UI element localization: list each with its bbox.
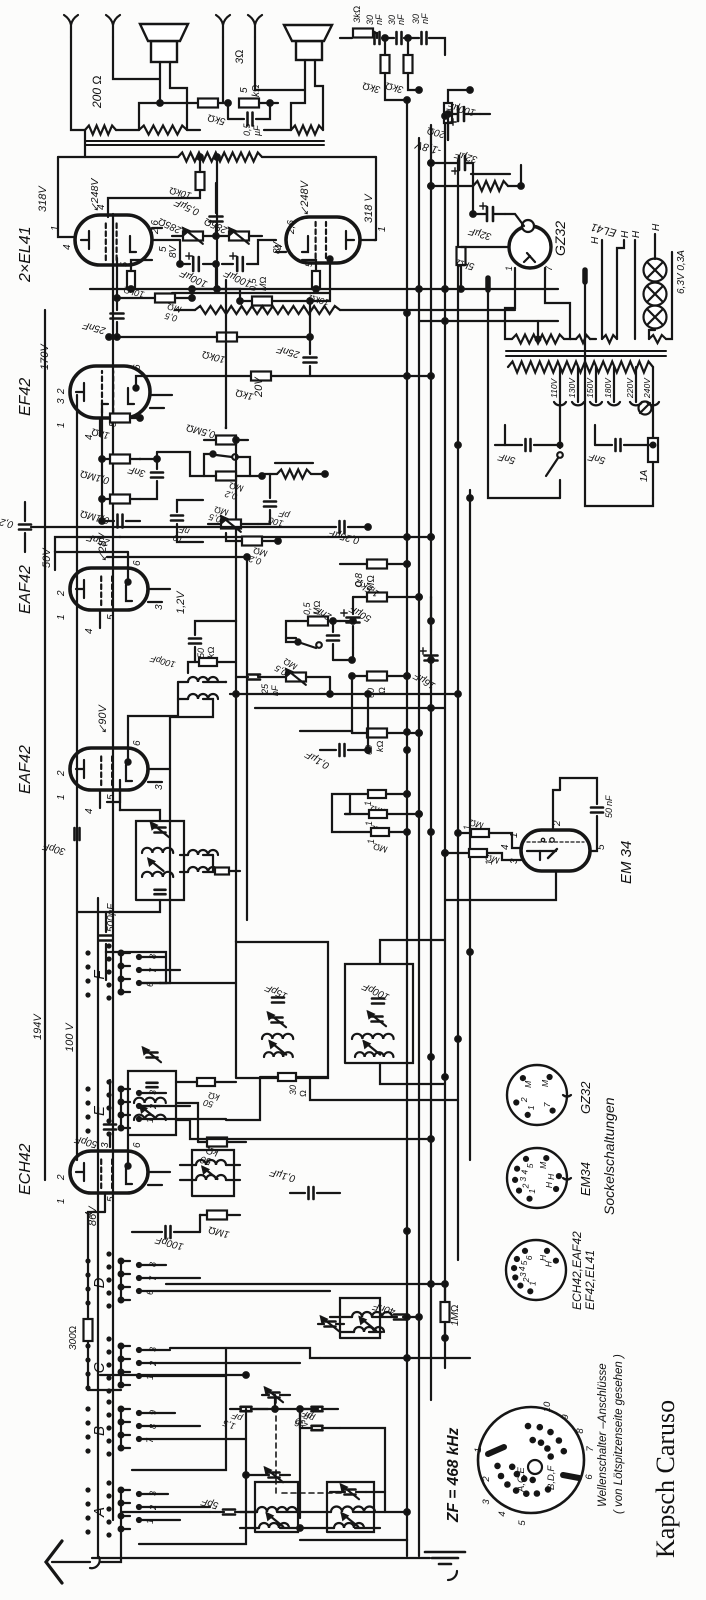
- svg-text:25nF: 25nF: [81, 319, 108, 336]
- capacitor 2nF det: [312, 603, 339, 660]
- svg-text:EL41: EL41: [590, 220, 618, 238]
- capacitor 0,25uF b: [327, 521, 371, 546]
- svg-text:EAF42: EAF42: [17, 565, 34, 614]
- wire EF42 pins: [100, 395, 172, 436]
- svg-text:A,C,E: A,C,E: [516, 1467, 527, 1493]
- elco 100uF 2: [222, 253, 253, 289]
- output cathode wires: [172, 183, 276, 289]
- ground: [92, 1552, 465, 1564]
- corner wires: [373, 33, 445, 103]
- capacitor 30pF fe: [294, 1408, 340, 1430]
- text Kapsch Caruso: [651, 1400, 680, 1558]
- capacitor 25nF g2: [275, 256, 333, 376]
- wire heater return: [666, 252, 672, 339]
- text 20V: [253, 376, 265, 398]
- capacitor 100pF if: [360, 980, 391, 1004]
- svg-text:170V: 170V: [39, 343, 51, 370]
- wire box1 feeds: [226, 1078, 458, 1120]
- svg-text:ZF = 468 kHz: ZF = 468 kHz: [445, 1427, 462, 1523]
- wire psu connect: [419, 320, 558, 322]
- resistor 3k a: [361, 55, 389, 95]
- socket GZ32: [507, 1065, 593, 1125]
- svg-text:1: 1: [504, 266, 514, 271]
- svg-text:7: 7: [148, 967, 158, 973]
- svg-text:2: 2: [56, 1174, 67, 1181]
- capacitor 0,1uF af: [303, 744, 371, 771]
- svg-text:7: 7: [148, 1275, 158, 1281]
- antenna coil 1: [257, 1507, 297, 1528]
- svg-text:3kΩ: 3kΩ: [361, 79, 381, 94]
- speaker 1 wires: [71, 37, 187, 130]
- svg-text:10: 10: [542, 1401, 553, 1412]
- terminal fork 2: [106, 15, 120, 37]
- tap terminals: [554, 402, 659, 415]
- svg-text:2,6: 2,6: [286, 220, 297, 235]
- switch section A: [87, 1482, 211, 1537]
- svg-text:A: A: [91, 1507, 108, 1518]
- svg-text:0,5: 0,5: [302, 601, 312, 615]
- capacitor 500pF: [77, 903, 117, 980]
- gang link h: [275, 1395, 277, 1493]
- svg-text:220V: 220V: [625, 377, 635, 399]
- wire coil bottoms: [300, 1539, 407, 1541]
- resistor 60k: [352, 729, 422, 756]
- capacitor 25nF g1: [81, 258, 123, 340]
- svg-text:8: 8: [148, 954, 158, 959]
- svg-text:2: 2: [56, 388, 67, 395]
- svg-text:3kΩ: 3kΩ: [384, 79, 404, 94]
- tube EF42 V4: [17, 364, 150, 440]
- IFT2 caps: [151, 823, 169, 894]
- wire em34 line: [445, 871, 556, 900]
- svg-text:3kΩ: 3kΩ: [352, 6, 363, 23]
- svg-text:↙90V: ↙90V: [97, 704, 109, 734]
- resistor 300 ohm: [68, 1212, 121, 1390]
- capacitor 100pF d: [132, 1226, 200, 1252]
- phono jack: [448, 1571, 457, 1580]
- elco 50uF: [341, 597, 360, 648]
- capacitor 40nF: [371, 1300, 422, 1320]
- wire top HT rail y=113: [112, 214, 114, 1520]
- svg-text:-1,8V: -1,8V: [413, 138, 443, 157]
- resistor 0,5M g2: [237, 277, 310, 306]
- wire EAF42-2 pins: [100, 589, 170, 628]
- heater bus 1: [590, 236, 602, 339]
- tube EAF42 V2: [17, 740, 165, 814]
- svg-text:3: 3: [56, 398, 67, 404]
- svg-text:kΩ: kΩ: [206, 647, 216, 659]
- svg-text:H: H: [590, 236, 601, 244]
- capacitor 0,5uF out: [172, 196, 222, 221]
- svg-text:50: 50: [604, 808, 614, 818]
- resistor 1M b: [345, 810, 422, 837]
- IFT3 coil b: [170, 682, 218, 717]
- capacitor 2,6pF: [294, 1407, 338, 1432]
- svg-text:5pF: 5pF: [199, 1495, 219, 1510]
- svg-text:1MΩ: 1MΩ: [450, 1304, 461, 1326]
- IF2a coil pair: [262, 1034, 293, 1057]
- wire long 226: [225, 280, 227, 428]
- svg-text:3: 3: [154, 784, 165, 790]
- heater winding gz: [570, 335, 596, 343]
- capacitor 10nF: [171, 500, 203, 545]
- svg-text:4: 4: [500, 844, 511, 850]
- svg-text:6: 6: [132, 364, 143, 370]
- IF2b coil pair: [352, 1034, 394, 1057]
- mains cord b: [585, 270, 653, 506]
- capacitor 100pF det: [149, 621, 236, 670]
- svg-text:6: 6: [132, 560, 143, 566]
- resistor 1k ef: [234, 372, 433, 402]
- svg-text:5kΩ: 5kΩ: [206, 111, 226, 126]
- wire AF line 170: [160, 717, 170, 983]
- resistor 50k: [198, 1138, 246, 1167]
- trimmer fe1: [262, 1388, 290, 1402]
- wire EL41-2 grid: [272, 220, 297, 254]
- svg-text:6: 6: [145, 1290, 155, 1295]
- svg-text:2: 2: [148, 1505, 158, 1511]
- tube EL41 V6: [274, 217, 388, 263]
- text 90V arrow: [97, 704, 109, 734]
- resistor 0,2M b: [226, 533, 281, 567]
- wire bus rail 5: [457, 160, 459, 1260]
- tube EL41 V5: [17, 210, 169, 283]
- IFT1 cap: [143, 1048, 161, 1087]
- svg-text:3: 3: [148, 1347, 158, 1352]
- svg-text:1: 1: [56, 1198, 67, 1204]
- switch tone: [210, 451, 237, 459]
- capacitor 0,25uF top: [0, 502, 31, 552]
- switch gram: [286, 621, 322, 648]
- svg-text:0,5MΩ: 0,5MΩ: [185, 421, 217, 439]
- svg-text:( von Lötspitzenseite gesehen: ( von Lötspitzenseite gesehen ): [613, 1354, 625, 1514]
- svg-text:nF: nF: [604, 795, 614, 806]
- svg-text:ECH42,EAF42: ECH42,EAF42: [570, 1231, 584, 1310]
- wire chassis line y98: [97, 898, 99, 1558]
- trimmer fe2: [262, 1468, 290, 1482]
- resistor 3k b: [384, 55, 412, 95]
- antenna coil box 2: [327, 1482, 374, 1532]
- wire g1 bias: [189, 286, 195, 298]
- svg-text:1: 1: [145, 1519, 155, 1524]
- text 3 ohm: [234, 49, 246, 64]
- text Wellenschalter caption: [597, 1354, 625, 1514]
- svg-text:H: H: [620, 230, 631, 238]
- wire choke to rail: [428, 183, 473, 189]
- antenna: [46, 1529, 121, 1583]
- svg-text:7: 7: [542, 1102, 552, 1107]
- svg-text:EAF42: EAF42: [17, 745, 34, 794]
- rectifier GZ32: [504, 220, 568, 271]
- svg-text:180V: 180V: [603, 377, 613, 398]
- output transformer primary: [58, 153, 376, 162]
- output transformer tap: [214, 154, 220, 292]
- resistor 0,5M g1: [114, 294, 195, 324]
- svg-text:1: 1: [145, 1118, 155, 1123]
- svg-text:↙248V: ↙248V: [299, 179, 311, 216]
- wire F to box: [106, 952, 166, 983]
- svg-text:6: 6: [524, 1255, 534, 1260]
- wire bus rail 2: [418, 138, 420, 1556]
- svg-text:3: 3: [518, 1272, 528, 1277]
- wire long 236: [233, 437, 239, 942]
- capacitor 5pF: [199, 1495, 257, 1514]
- capacitor 50nF em: [560, 778, 614, 818]
- svg-text:3: 3: [154, 604, 165, 610]
- svg-text:0,1µF: 0,1µF: [268, 1166, 297, 1184]
- svg-text:2: 2: [148, 1361, 158, 1367]
- svg-text:1A: 1A: [639, 469, 650, 482]
- elco 32uF a: [428, 148, 479, 186]
- text -1,8V: [413, 138, 443, 157]
- svg-text:4: 4: [497, 1511, 508, 1516]
- svg-text:50: 50: [196, 648, 206, 658]
- svg-text:3: 3: [148, 1090, 158, 1095]
- svg-text:H: H: [651, 223, 662, 231]
- svg-text:4: 4: [84, 628, 95, 634]
- resistor 3k corner: [340, 6, 373, 38]
- capacitor 30nF c: [411, 13, 430, 44]
- svg-text:2: 2: [56, 590, 67, 597]
- svg-text:nF: nF: [420, 13, 430, 24]
- text 1,2V: [175, 590, 187, 614]
- svg-text:D: D: [91, 1277, 108, 1288]
- svg-text:110V: 110V: [549, 377, 559, 398]
- wire osc feed: [166, 1283, 445, 1285]
- resistor 0,5M mid: [225, 427, 227, 429]
- resistor 1M c: [340, 828, 410, 855]
- svg-text:Sockelschaltungen: Sockelschaltungen: [601, 1097, 617, 1215]
- text 318V-1: [37, 185, 49, 212]
- antenna coil box 1: [255, 1482, 298, 1532]
- svg-text:6,3V 0,3A: 6,3V 0,3A: [676, 250, 687, 294]
- svg-text:100pF: 100pF: [149, 653, 177, 669]
- svg-text:GZ32: GZ32: [578, 1081, 593, 1114]
- svg-text:EF42: EF42: [17, 378, 34, 416]
- capacitor 5nF b: [586, 439, 655, 466]
- svg-text:4: 4: [517, 1266, 527, 1271]
- svg-text:M: M: [523, 1080, 533, 1088]
- terminal fork 3: [216, 15, 230, 37]
- resistor 10k ef: [106, 333, 313, 365]
- svg-text:500pF: 500pF: [106, 903, 117, 932]
- resistor 0,2M tone: [204, 472, 250, 502]
- svg-text:EM 34: EM 34: [618, 841, 635, 884]
- svg-text:200 Ω: 200 Ω: [90, 75, 104, 109]
- svg-text:5: 5: [106, 794, 117, 800]
- resistor 5k psu: [455, 247, 509, 292]
- text 170V: [39, 343, 51, 370]
- svg-text:3: 3: [148, 1491, 158, 1496]
- svg-text:0,1MΩ: 0,1MΩ: [79, 507, 111, 525]
- wire 5nF join: [495, 425, 595, 445]
- svg-text:40nF: 40nF: [371, 1300, 397, 1317]
- wire feed 1043: [107, 556, 247, 558]
- svg-text:25nF: 25nF: [275, 343, 302, 360]
- svg-text:5: 5: [525, 1163, 535, 1168]
- resistor 5k fb2: [225, 84, 278, 107]
- svg-text:240V: 240V: [642, 377, 652, 399]
- ech coil box: [192, 1150, 234, 1196]
- trimmer a: [268, 1013, 286, 1027]
- heater bus 3: [631, 230, 642, 339]
- wire eaf1 grid: [107, 790, 120, 802]
- text 200 ohm: [90, 75, 104, 109]
- capacitor 0,5uF fb: [228, 103, 270, 136]
- svg-text:8V: 8V: [168, 244, 179, 258]
- svg-text:8: 8: [148, 1262, 158, 1267]
- svg-text:B,D,F: B,D,F: [546, 1465, 557, 1490]
- terminal fork 1: [64, 15, 78, 37]
- heater winding 1: [602, 335, 617, 343]
- transformer core: [85, 141, 324, 145]
- svg-text:6: 6: [132, 740, 143, 746]
- svg-text:130V: 130V: [567, 377, 577, 398]
- osc coil box: [340, 1298, 380, 1338]
- pot 285 ohm 2: [203, 215, 249, 244]
- svg-text:2: 2: [481, 1476, 492, 1483]
- wire box2 feeds: [380, 940, 445, 1084]
- heater winding 2: [649, 335, 666, 343]
- resistor 1M osc: [441, 1284, 462, 1338]
- resistor 50k det: [188, 647, 236, 674]
- speaker 2: [284, 25, 332, 60]
- speaker 1: [140, 24, 188, 62]
- svg-text:EF42,EL41: EF42,EL41: [583, 1250, 597, 1310]
- wire eaf1 anode ift3: [128, 699, 178, 732]
- svg-text:E: E: [91, 1105, 108, 1116]
- hv center tap: [536, 321, 541, 341]
- wire anode EL41-2: [374, 157, 376, 240]
- svg-text:1: 1: [56, 794, 67, 800]
- svg-text:kΩ: kΩ: [375, 741, 385, 753]
- svg-text:9: 9: [148, 1410, 158, 1415]
- svg-text:1: 1: [526, 1105, 536, 1110]
- wire anode EL41-1: [50, 157, 73, 237]
- svg-text:10kΩ: 10kΩ: [201, 348, 227, 365]
- svg-text:3: 3: [518, 1177, 528, 1182]
- svg-text:2: 2: [521, 1183, 531, 1189]
- svg-text:1kΩ: 1kΩ: [234, 386, 254, 401]
- wire bus rail 4: [444, 116, 446, 1368]
- svg-text:5: 5: [119, 261, 129, 267]
- wire EL41-1 pins: [152, 228, 180, 240]
- resistor 60 ohm: [352, 672, 410, 699]
- svg-text:kΩ: kΩ: [251, 84, 262, 97]
- svg-text:nF: nF: [396, 14, 406, 25]
- svg-text:1: 1: [56, 422, 67, 428]
- trimmer b: [368, 1012, 386, 1026]
- resistor 0,5M fb: [185, 421, 248, 444]
- primary taps: [549, 367, 653, 402]
- wire rail 194V: [32, 310, 45, 1180]
- svg-text:1: 1: [50, 225, 61, 231]
- wave switch diagram: [473, 1401, 596, 1526]
- elco 32uF b: [467, 203, 505, 242]
- wire ift1 rail: [176, 1103, 431, 1142]
- wire EM34 pin5: [590, 816, 597, 851]
- wire bias line: [192, 289, 240, 301]
- svg-text:MΩ: MΩ: [372, 841, 389, 854]
- text 50V: [41, 547, 53, 568]
- antenna coil 2: [331, 1507, 375, 1529]
- wire EL41-1 grid: [150, 220, 179, 258]
- resistor 1M d: [200, 1211, 240, 1240]
- resistor 0,8M: [340, 560, 410, 592]
- mains switch: [546, 402, 563, 498]
- svg-text:1: 1: [473, 1447, 484, 1452]
- svg-text:32µF: 32µF: [467, 225, 493, 242]
- mains fuse: [639, 402, 658, 498]
- wire bus rail 1: [406, 100, 408, 1556]
- wire E to ift1: [139, 1105, 160, 1107]
- resistor 0,1M b: [79, 495, 140, 526]
- elco 100uF psu: [445, 99, 490, 140]
- svg-text:4: 4: [84, 808, 95, 814]
- IFT2 second pair: [180, 850, 240, 875]
- socket ECH42: [506, 1231, 597, 1310]
- svg-text:3: 3: [481, 1499, 492, 1505]
- wire det lines: [230, 618, 455, 750]
- svg-text:5: 5: [239, 87, 250, 93]
- junction dots rails: [404, 113, 473, 1515]
- svg-text:µF: µF: [252, 125, 262, 136]
- resistor 1M em1: [462, 817, 489, 837]
- trimmer osc: [318, 1317, 344, 1331]
- wire rail 100V: [64, 395, 77, 1160]
- svg-text:H: H: [538, 1254, 548, 1261]
- svg-text:8: 8: [575, 1428, 586, 1434]
- svg-text:H: H: [631, 230, 642, 238]
- svg-text:H: H: [544, 1260, 554, 1267]
- resistor 0,1M a: [79, 455, 140, 486]
- switch section F: [87, 945, 237, 1000]
- resistor 1k: [90, 414, 142, 441]
- svg-text:4: 4: [62, 244, 73, 250]
- svg-text:318V: 318V: [37, 185, 49, 212]
- capacitor 50pF grid: [73, 1080, 116, 1150]
- svg-text:B: B: [91, 1426, 108, 1436]
- svg-text:0,25µF: 0,25µF: [0, 511, 15, 530]
- field winding 200ohm: [85, 126, 139, 158]
- wire EAF42-2 anode: [125, 552, 130, 585]
- svg-text:50V: 50V: [41, 547, 53, 568]
- svg-text:5: 5: [106, 614, 117, 620]
- svg-text:20V: 20V: [253, 376, 265, 398]
- tone sw wires: [157, 452, 265, 479]
- svg-text:ECH42: ECH42: [17, 1143, 34, 1195]
- pot 0,5M tone: [207, 504, 258, 531]
- capacitor 100pF tone: [258, 474, 291, 529]
- svg-text:2: 2: [56, 770, 67, 777]
- text Sockelschaltungen: [601, 1097, 617, 1215]
- wire GZ32 cathode: [505, 214, 524, 226]
- IFT2 coils: [142, 848, 173, 877]
- svg-text:C: C: [91, 1362, 108, 1373]
- svg-text:0,5: 0,5: [242, 122, 252, 136]
- IF box 2: [345, 964, 413, 1063]
- wire ift2 feeds: [106, 780, 160, 912]
- IFT1 box: [128, 1071, 176, 1135]
- speaker secondary 1: [139, 126, 187, 135]
- svg-text:Ω: Ω: [298, 1090, 308, 1097]
- svg-text:8: 8: [148, 1424, 158, 1429]
- wire screen feed line: [172, 292, 330, 294]
- switch section B: [87, 1401, 247, 1456]
- svg-text:Wellenschalter –Anschlüsse: Wellenschalter –Anschlüsse: [597, 1363, 609, 1507]
- resistor 50k ift1: [176, 1078, 236, 1110]
- svg-text:6: 6: [132, 1142, 143, 1148]
